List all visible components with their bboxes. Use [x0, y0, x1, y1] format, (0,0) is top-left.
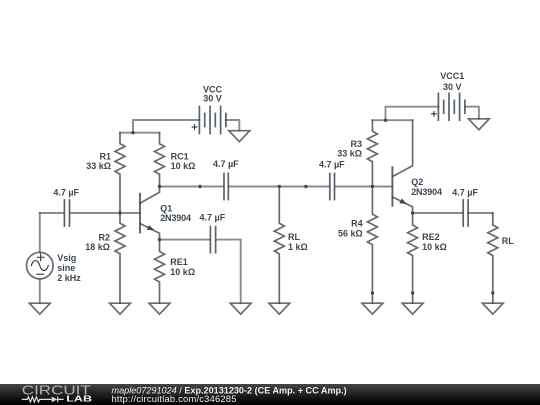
node collector Q1	[158, 185, 161, 188]
ground at VCC	[229, 131, 250, 142]
wire mid line right	[335, 186, 392, 188]
node RE2 bottom waypoint	[411, 291, 414, 294]
resistor RL2	[488, 213, 498, 303]
svg-text:4.7 µF: 4.7 µF	[319, 159, 345, 169]
battery VCC1	[432, 93, 479, 120]
svg-text:R2: R2	[98, 232, 110, 242]
svg-text:RL: RL	[502, 236, 514, 246]
svg-text:10 kΩ: 10 kΩ	[422, 242, 447, 252]
node top rail stage1	[131, 131, 134, 134]
svg-text:2N3904: 2N3904	[411, 187, 442, 197]
node top rail stage2	[384, 119, 387, 122]
svg-text:Vsig: Vsig	[57, 253, 76, 263]
node RL1 top	[278, 185, 281, 188]
svg-text:4.7 µF: 4.7 µF	[452, 188, 478, 198]
ground under Vsig	[29, 303, 50, 314]
node base Q2 junction	[371, 185, 374, 188]
svg-text:VCC1: VCC1	[440, 71, 464, 81]
capacitor C3 4.7uF	[463, 200, 468, 226]
label VCC1 value	[440, 71, 464, 92]
logo LAB	[66, 394, 92, 403]
svg-text:33 kΩ: 33 kΩ	[337, 148, 362, 158]
label R1 value	[86, 151, 111, 171]
svg-text:LAB: LAB	[66, 394, 92, 403]
capacitor C2 4.7uF	[330, 174, 335, 200]
transistor Q2 2N3904	[392, 120, 412, 213]
svg-text:R1: R1	[99, 151, 111, 161]
wire top rail stage2	[372, 107, 438, 121]
label C3 value	[452, 188, 478, 198]
ground at VCC1	[469, 119, 490, 130]
ground under RE2	[402, 303, 423, 314]
resistor RL1 1k	[274, 187, 284, 304]
node mid 1	[198, 185, 201, 188]
logo wire resistor diode glyph	[22, 397, 64, 403]
svg-text:R4: R4	[351, 219, 363, 229]
label Q1 value	[160, 204, 191, 223]
svg-text:30 V: 30 V	[443, 82, 462, 92]
label RC1 value	[171, 152, 196, 171]
node emitter Q2	[411, 211, 414, 214]
resistor R1	[115, 133, 125, 213]
ground under RL1	[269, 303, 290, 314]
svg-text:10 kΩ: 10 kΩ	[170, 267, 195, 277]
capacitor CE bypass 4.7uF	[210, 227, 215, 253]
svg-text:2 kHz: 2 kHz	[57, 273, 81, 283]
svg-text:4.7 µF: 4.7 µF	[53, 188, 79, 198]
wire top rail stage1	[120, 120, 199, 133]
svg-text:4.7 µF: 4.7 µF	[213, 159, 239, 169]
resistor R2	[115, 213, 125, 303]
footer bar	[0, 384, 540, 405]
battery VCC	[192, 107, 239, 134]
label RL2 value	[502, 236, 514, 246]
label input cap value	[53, 188, 79, 198]
svg-text:10 kΩ: 10 kΩ	[171, 161, 196, 171]
resistor R4	[367, 187, 377, 304]
ground under R4	[362, 303, 383, 314]
svg-text:56 kΩ: 56 kΩ	[338, 228, 363, 238]
label R2 value	[85, 232, 110, 252]
label C1 value	[213, 159, 239, 169]
resistor RC1	[155, 133, 165, 187]
capacitor C1 4.7uF	[224, 174, 228, 200]
svg-text:4.7 µF: 4.7 µF	[200, 212, 226, 222]
label RL1 value	[288, 232, 308, 252]
svg-text:Q2: Q2	[411, 177, 423, 187]
label CE bypass value	[200, 212, 226, 222]
svg-text:sine: sine	[57, 263, 75, 273]
capacitor C input 4.7uF	[64, 200, 69, 226]
node base Q1 junction	[118, 211, 121, 214]
svg-text:33 kΩ: 33 kΩ	[86, 161, 111, 171]
node mid 2	[304, 185, 307, 188]
resistor RE1	[155, 240, 165, 304]
logo CIRCUIT	[22, 384, 91, 398]
label VCC value	[203, 85, 223, 104]
node RL2 bottom waypoint	[491, 291, 494, 294]
footer line1 title	[112, 385, 347, 395]
label Vsig value	[57, 253, 81, 283]
label R4 value	[338, 219, 363, 239]
source Vsig sine	[27, 213, 54, 303]
ground under RE1	[149, 303, 170, 314]
node emitter Q1	[158, 238, 161, 241]
transistor Q1 2N3904	[140, 187, 160, 240]
label RE1 value	[170, 257, 195, 277]
svg-text:30 V: 30 V	[203, 94, 222, 104]
label C2 value	[319, 159, 345, 169]
wire input line	[40, 212, 140, 214]
footer line2 url	[112, 393, 237, 404]
ground under R2	[110, 303, 131, 314]
svg-text:RL: RL	[288, 232, 300, 242]
ground under bypass cap	[230, 303, 251, 314]
svg-text:RE2: RE2	[422, 232, 440, 242]
wire mid line left	[160, 186, 224, 188]
svg-text:1 kΩ: 1 kΩ	[288, 242, 308, 252]
ground under RL2	[482, 303, 503, 314]
resistor R3	[367, 120, 377, 186]
svg-text:http://circuitlab.com/c346285: http://circuitlab.com/c346285	[112, 393, 237, 404]
label Q2 value	[411, 177, 442, 197]
resistor RE2	[408, 213, 418, 303]
svg-text:RE1: RE1	[170, 257, 188, 267]
label R3 value	[337, 139, 362, 158]
wire mid line center	[229, 186, 329, 188]
label RE2 value	[422, 232, 447, 252]
svg-text:2N3904: 2N3904	[160, 213, 191, 223]
node R4 bottom waypoint	[371, 291, 374, 294]
wire emitter2 line	[413, 212, 493, 214]
wire emitter1 line	[160, 240, 241, 304]
svg-text:18 kΩ: 18 kΩ	[85, 242, 110, 252]
